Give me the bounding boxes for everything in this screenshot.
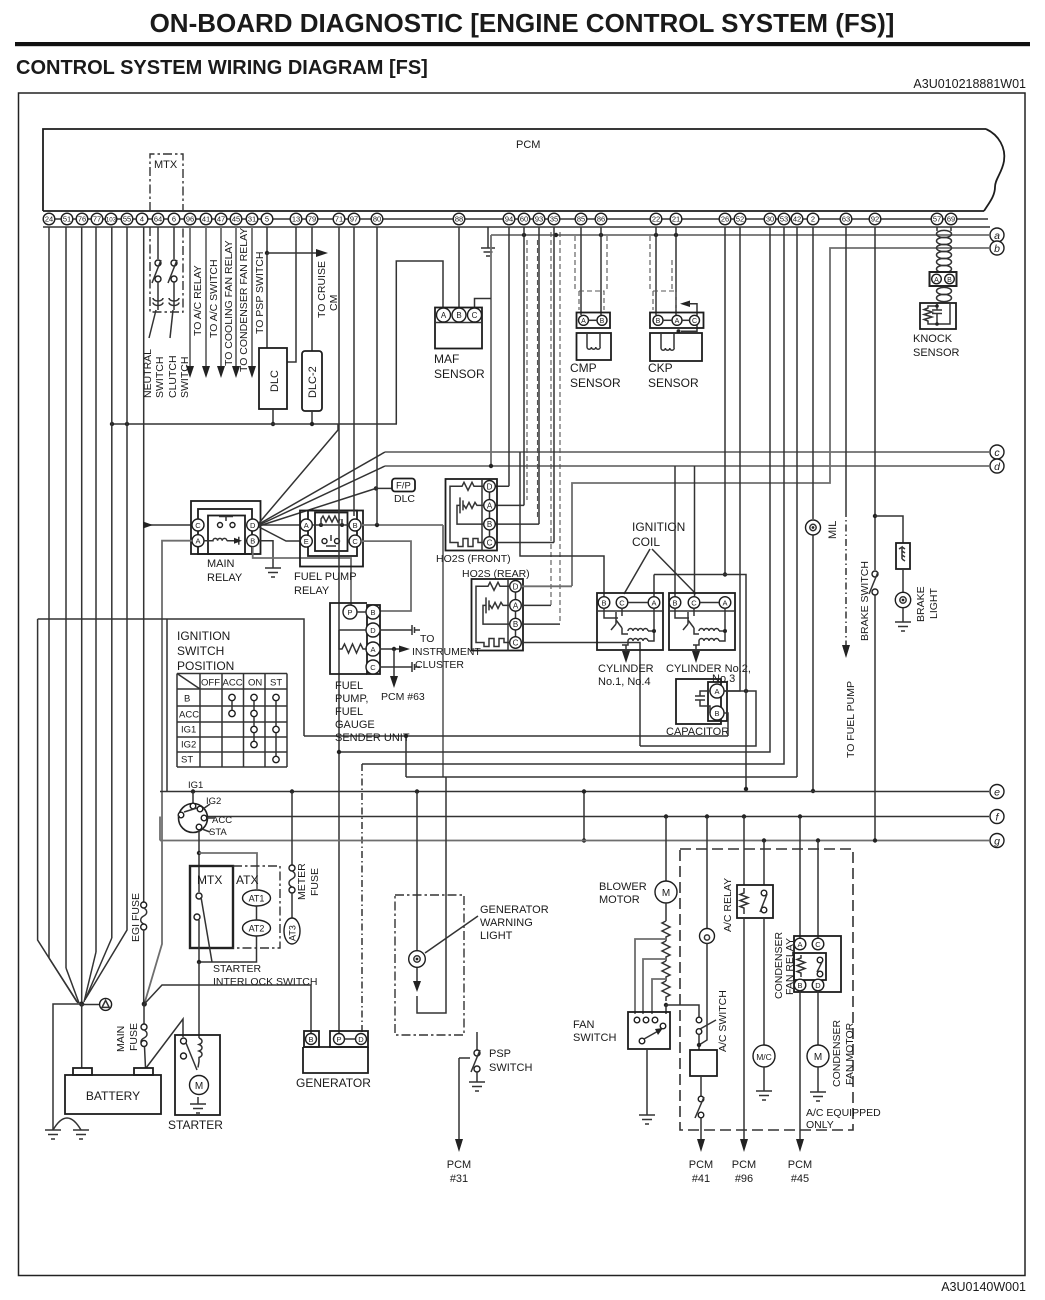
wire pin51 down [65, 227, 67, 968]
brake light lamp [895, 570, 940, 622]
wire to cooling fan relay [217, 227, 235, 378]
svg-text:ATX: ATX [236, 873, 258, 887]
title rule [15, 42, 1030, 46]
svg-text:C: C [513, 639, 519, 648]
wire B2 feed [674, 466, 676, 596]
fuel pump relay K2 [294, 511, 363, 598]
svg-text:WARNING: WARNING [480, 917, 533, 929]
svg-text:FAN MOTOR: FAN MOTOR [844, 1022, 856, 1085]
brake switch SW [859, 561, 878, 641]
CKP sensor [648, 313, 704, 391]
wire STA down to interlock [197, 830, 201, 892]
wire pin88 to MAF B [458, 227, 460, 308]
PSP switch SW [469, 1032, 532, 1091]
CMP sensor [570, 313, 621, 391]
D relay fan wire to bus c [259, 452, 385, 524]
svg-text:SWITCH: SWITCH [154, 357, 166, 398]
F/P DLC [392, 479, 415, 506]
svg-text:CLUTCH: CLUTCH [167, 355, 179, 398]
ignition switch position table [177, 674, 287, 768]
battery negative arc ground [53, 1118, 89, 1139]
svg-text:DLC: DLC [269, 370, 281, 392]
svg-text:D: D [513, 582, 519, 591]
inner loop to y777 [417, 777, 446, 1013]
svg-text:LIGHT: LIGHT [928, 587, 940, 619]
main relay ground [259, 541, 281, 577]
svg-text:TO PSP SWITCH: TO PSP SWITCH [254, 252, 266, 334]
coil feed bus y574 [654, 574, 725, 576]
wire g left end up [159, 817, 161, 841]
AT2 connector [197, 906, 271, 964]
svg-text:30: 30 [766, 215, 774, 224]
starter M [168, 1035, 223, 1132]
svg-text:MTX: MTX [197, 873, 222, 887]
svg-text:85: 85 [577, 215, 585, 224]
svg-text:A: A [487, 501, 493, 510]
A/C equipped dash box [680, 849, 853, 1130]
DLC [259, 348, 287, 409]
svg-text:#31: #31 [450, 1173, 468, 1185]
svg-text:RELAY: RELAY [207, 572, 243, 584]
svg-text:SENSOR: SENSOR [913, 347, 960, 359]
svg-text:#96: #96 [735, 1173, 753, 1185]
svg-text:B: B [600, 318, 605, 325]
PCM U1 box [43, 129, 1004, 211]
svg-text:ACC: ACC [179, 710, 199, 721]
svg-text:TO FUEL PUMP: TO FUEL PUMP [845, 681, 857, 758]
meter fuse F [289, 792, 321, 919]
svg-text:STARTER: STARTER [168, 1118, 223, 1132]
left fan converge to battery node [38, 424, 127, 1003]
wire battery feed to starter B [146, 1019, 183, 1068]
svg-text:No.1, No.4: No.1, No.4 [598, 676, 651, 688]
thermo switch circle [700, 817, 715, 944]
svg-text:SENSOR: SENSOR [648, 376, 699, 390]
blower resistor R [662, 903, 670, 1007]
wire pin26 down to coils [723, 227, 727, 577]
svg-text:A3U0140W001: A3U0140W001 [941, 1280, 1026, 1294]
svg-text:86: 86 [597, 215, 605, 224]
svg-text:AT1: AT1 [249, 894, 265, 904]
wire pin76 down [81, 227, 83, 1004]
HO2S front feeds [495, 227, 554, 543]
svg-text:B: B [487, 520, 492, 529]
svg-text:77: 77 [93, 215, 101, 224]
wire interlock to starter coil [198, 962, 200, 1038]
wire fuel A to instrument cluster [380, 646, 410, 653]
svg-text:COIL: COIL [632, 535, 660, 549]
svg-text:a: a [994, 230, 1000, 242]
svg-text:CONTROL SYSTEM WIRING DIAGRAM: CONTROL SYSTEM WIRING DIAGRAM [FS] [16, 57, 428, 79]
svg-text:55: 55 [123, 215, 131, 224]
HO2S (REAR) [462, 568, 530, 651]
wire pin22 to CKP B [655, 227, 657, 315]
svg-text:SENDER UNIT: SENDER UNIT [335, 732, 410, 744]
svg-text:FUEL: FUEL [335, 680, 363, 692]
DLC-2 [302, 351, 322, 411]
svg-text:LIGHT: LIGHT [480, 930, 513, 942]
AT3 connector [284, 918, 300, 944]
generator warning light dash box [395, 895, 464, 1035]
neutral switch [142, 227, 166, 398]
clutch switch [167, 227, 191, 398]
shield dashes CKP [650, 236, 672, 290]
svg-text:MAF: MAF [434, 352, 459, 366]
MIL lamp [806, 520, 840, 539]
svg-text:B: B [353, 521, 358, 530]
svg-text:M: M [662, 888, 670, 899]
D relay fan wire to y424 [259, 424, 338, 523]
svg-text:BRAKE SWITCH: BRAKE SWITCH [859, 561, 871, 641]
svg-text:M: M [195, 1081, 203, 1092]
battery node junction [79, 1001, 147, 1006]
arrow PCM 41 [689, 1139, 713, 1185]
svg-text:GENERATOR: GENERATOR [480, 904, 549, 916]
svg-text:SENSOR: SENSOR [434, 367, 485, 381]
wire to A/C relay [186, 227, 204, 378]
D relay wire to fuel pump relay A [259, 524, 300, 526]
svg-text:IG1: IG1 [188, 780, 203, 791]
brake light filament [896, 543, 910, 569]
svg-text:ON-BOARD DIAGNOSTIC [ENGINE CO: ON-BOARD DIAGNOSTIC [ENGINE CONTROL SYST… [150, 8, 895, 38]
bus line d [385, 464, 989, 468]
svg-text:EGI FUSE: EGI FUSE [130, 893, 142, 942]
svg-text:FUSE: FUSE [128, 1023, 140, 1051]
ground stub below PCM rail [481, 227, 495, 256]
HO2S (FRONT) [436, 479, 511, 565]
wire MIL down to e [811, 536, 815, 794]
wire ignition frame to right [304, 736, 728, 777]
svg-text:#41: #41 [692, 1173, 710, 1185]
battery BT1 [65, 1068, 161, 1114]
svg-text:42: 42 [793, 215, 801, 224]
svg-text:CMP: CMP [570, 361, 597, 375]
D relay fan wire to F/P DLC [259, 488, 376, 526]
svg-text:A: A [513, 601, 519, 610]
noise filter symbol [82, 998, 112, 1010]
svg-text:INSTRUMENT: INSTRUMENT [412, 646, 481, 658]
ignition coil label [624, 520, 696, 594]
svg-text:13: 13 [292, 215, 300, 224]
EGI fuse F [130, 893, 147, 1004]
svg-text:CKP: CKP [648, 361, 673, 375]
svg-text:53: 53 [780, 215, 788, 224]
connector mark upper [412, 625, 420, 635]
svg-text:2: 2 [811, 215, 815, 224]
wire pin92 down to brake switch [873, 227, 877, 570]
main fuse F [115, 1004, 147, 1068]
starter interlock switch SW [194, 893, 317, 988]
wire node to starter interlock feed [144, 985, 311, 1033]
svg-text:41: 41 [202, 215, 210, 224]
svg-text:A: A [797, 940, 802, 949]
wire pin2 down / MIL [812, 227, 814, 519]
svg-text:AT3: AT3 [288, 925, 298, 941]
svg-text:CLUSTER: CLUSTER [415, 659, 464, 671]
lower switch SW [695, 1096, 704, 1140]
svg-text:MTX: MTX [154, 159, 178, 171]
svg-text:#45: #45 [791, 1173, 809, 1185]
svg-text:97: 97 [350, 215, 358, 224]
svg-text:C: C [815, 940, 821, 949]
wire pin24 down [48, 227, 50, 958]
svg-text:C: C [691, 599, 697, 608]
wire pin103 down [111, 227, 113, 938]
thermo protector box [690, 1050, 717, 1096]
svg-text:35: 35 [550, 215, 558, 224]
svg-text:ST: ST [181, 755, 193, 766]
node a feeder [490, 235, 492, 466]
wire capacitor B down [724, 713, 728, 736]
svg-text:B: B [513, 620, 518, 629]
condenser fan relay K4 [773, 817, 841, 1000]
svg-text:60: 60 [520, 215, 528, 224]
A/C switch SW [696, 944, 729, 1053]
svg-text:KNOCK: KNOCK [913, 333, 953, 345]
svg-text:22: 22 [652, 215, 660, 224]
svg-text:P: P [347, 608, 352, 617]
wire A/C relay coil to PCM 96 [732, 918, 756, 1185]
svg-text:21: 21 [672, 215, 680, 224]
ATX dash box [233, 866, 280, 948]
main relay B wire to fuel pump P [253, 547, 351, 606]
svg-text:ONLY: ONLY [806, 1119, 834, 1131]
wire node left down [53, 1004, 82, 1130]
main relay feed arrow [143, 522, 192, 529]
ignition box frame [167, 619, 304, 792]
svg-text:RELAY: RELAY [294, 585, 330, 597]
svg-text:A: A [651, 599, 656, 608]
svg-text:FUSE: FUSE [309, 868, 321, 896]
node e bus [160, 789, 989, 793]
wire y619 left [38, 618, 167, 620]
bus line b [572, 248, 989, 586]
svg-text:103: 103 [106, 217, 117, 224]
wire y777 [406, 776, 797, 778]
wire pin13 to DLC [287, 227, 296, 362]
MTX box [190, 866, 233, 948]
wire e down to warning lamp [416, 792, 418, 951]
AT1 connector [243, 890, 271, 906]
blower motor M [599, 817, 677, 907]
PCM connector pins [43, 213, 957, 225]
svg-text:CYLINDER No.2,: CYLINDER No.2, [666, 663, 751, 675]
svg-text:C: C [370, 663, 376, 672]
knock sensor twisted pair lower [937, 287, 952, 301]
svg-text:24: 24 [45, 215, 53, 224]
arrow below lamp [413, 968, 421, 992]
svg-text:79: 79 [308, 215, 316, 224]
svg-text:A: A [304, 521, 309, 530]
wire rear C across [521, 643, 640, 747]
svg-text:FAN RELAY: FAN RELAY [784, 938, 796, 995]
svg-text:B: B [184, 694, 190, 705]
svg-text:POSITION: POSITION [177, 659, 234, 673]
wire to PSP switch [248, 227, 266, 378]
connector mark lower [412, 662, 420, 672]
svg-text:HO2S (FRONT): HO2S (FRONT) [436, 553, 511, 565]
wire B1 feed [520, 452, 604, 596]
ignition key switch [178, 792, 232, 839]
svg-text:DLC: DLC [394, 493, 415, 505]
wire fuel C to cluster connector [380, 666, 412, 668]
svg-text:MAIN: MAIN [207, 558, 235, 570]
svg-text:ST: ST [270, 678, 282, 689]
svg-text:A: A [934, 277, 939, 284]
svg-text:GENERATOR: GENERATOR [296, 1076, 371, 1090]
svg-text:A: A [370, 645, 375, 654]
svg-text:96: 96 [186, 215, 194, 224]
wire pin52 down to capacitor A [724, 227, 740, 691]
svg-text:TO CRUISE: TO CRUISE [316, 261, 328, 318]
svg-text:BATTERY: BATTERY [86, 1089, 140, 1103]
wire node to battery plus [81, 1004, 83, 1068]
svg-text:TO: TO [420, 633, 434, 645]
PCM lower rail [43, 226, 990, 228]
svg-text:P: P [336, 1035, 341, 1044]
coil feed down to e [725, 575, 748, 792]
wire pin79 to DLC-2 [311, 227, 313, 351]
svg-text:SWITCH: SWITCH [177, 644, 224, 658]
brake light ground [895, 608, 911, 631]
svg-text:A: A [581, 318, 586, 325]
svg-text:64: 64 [154, 215, 162, 224]
wire fuel D to cluster connector [380, 629, 412, 631]
node a [990, 228, 1004, 242]
fuel pump sender unit [330, 603, 410, 744]
node b [990, 241, 1004, 255]
generator warning light L [409, 904, 549, 967]
svg-text:PSP: PSP [489, 1048, 511, 1060]
svg-text:CONDENSER: CONDENSER [831, 1019, 843, 1087]
svg-text:B: B [797, 981, 802, 990]
wire DLC to bus [272, 409, 274, 424]
svg-text:TO A/C SWITCH: TO A/C SWITCH [208, 259, 220, 338]
PCM pin numbers [43, 213, 55, 225]
MAF sensor [434, 308, 485, 382]
svg-text:B: B [308, 1035, 313, 1044]
main relay A wire to left rail [144, 541, 192, 1004]
svg-text:63: 63 [842, 215, 850, 224]
generator G [296, 1031, 371, 1090]
PCM pin row line [43, 218, 988, 220]
svg-text:E: E [304, 537, 309, 546]
svg-text:C: C [352, 537, 358, 546]
svg-text:ACC: ACC [212, 815, 232, 826]
svg-text:71: 71 [335, 215, 343, 224]
svg-text:C: C [472, 311, 478, 320]
svg-text:D: D [358, 1035, 364, 1044]
svg-text:C: C [619, 599, 625, 608]
svg-text:B: B [601, 599, 606, 608]
wire pin63 to fuel pump arrow [842, 227, 857, 758]
fan switch SW [573, 1012, 670, 1049]
wire to condenser fan relay [232, 227, 250, 378]
wire CKP shield hook [677, 301, 698, 334]
svg-text:IG1: IG1 [181, 725, 196, 736]
staircase wire y746 [640, 691, 756, 746]
bus line a [491, 233, 989, 237]
MTX dash-dot box (top) [150, 154, 183, 312]
svg-text:TO CONDENSER FAN RELAY: TO CONDENSER FAN RELAY [238, 228, 250, 372]
svg-text:SWITCH: SWITCH [573, 1032, 616, 1044]
svg-text:F/P: F/P [396, 481, 411, 492]
wire e to g link [583, 792, 585, 841]
wire A1 up [653, 575, 655, 597]
wire condenser relay B to PCM 45 [788, 991, 812, 1185]
wire to brake light [875, 516, 903, 543]
svg-text:80: 80 [373, 215, 381, 224]
svg-text:FUEL: FUEL [335, 706, 363, 718]
svg-text:B: B [456, 311, 461, 320]
svg-text:47: 47 [217, 215, 225, 224]
svg-text:FUEL PUMP: FUEL PUMP [294, 571, 357, 583]
wire DLC-2 to bus [311, 411, 313, 424]
svg-text:69: 69 [947, 215, 955, 224]
svg-text:C: C [487, 539, 493, 548]
svg-text:PCM #63: PCM #63 [381, 691, 425, 703]
svg-text:A: A [195, 537, 200, 546]
svg-text:SENSOR: SENSOR [570, 376, 621, 390]
svg-text:e: e [994, 787, 1000, 799]
svg-text:A: A [441, 311, 447, 320]
svg-text:A: A [675, 318, 680, 325]
svg-text:METER: METER [296, 863, 308, 900]
svg-text:OFF: OFF [201, 678, 220, 689]
svg-text:AT2: AT2 [249, 924, 265, 934]
condenser fan motor M [807, 991, 856, 1101]
ignition coil T1 (cylinder 1,4) [597, 593, 663, 688]
svg-text:B: B [656, 318, 661, 325]
ignition switch position title [177, 629, 234, 673]
shield dashed pair [551, 232, 560, 624]
wire brake switch down to g [874, 595, 876, 840]
svg-text:B: B [947, 277, 952, 284]
svg-text:A/C SWITCH: A/C SWITCH [717, 990, 729, 1052]
D relay fan wire to bus d [259, 466, 385, 525]
node d [990, 459, 1004, 473]
svg-text:TO COOLING FAN RELAY: TO COOLING FAN RELAY [223, 240, 235, 366]
wire pin85 to CMP A [580, 227, 582, 315]
svg-text:D: D [487, 482, 493, 491]
svg-text:DLC-2: DLC-2 [307, 366, 319, 398]
svg-text:MAIN: MAIN [115, 1026, 127, 1052]
wire PSP to PCM 31 [447, 1058, 471, 1185]
F/P DLC tap on pin80 wire [374, 486, 378, 490]
svg-text:52: 52 [736, 215, 744, 224]
svg-text:B: B [250, 537, 255, 546]
node c [990, 445, 1004, 459]
svg-text:c: c [994, 447, 1000, 459]
svg-text:D: D [815, 981, 821, 990]
svg-text:MOTOR: MOTOR [599, 894, 640, 906]
svg-text:CYLINDER: CYLINDER [598, 663, 654, 675]
node f bus [180, 814, 989, 818]
wire pin97 down [353, 227, 355, 516]
svg-text:PCM: PCM [788, 1159, 812, 1171]
svg-text:PCM: PCM [732, 1159, 756, 1171]
wire to ATX [199, 853, 257, 889]
magnetic clutch M/C [753, 918, 775, 1100]
wire key to f bus [178, 816, 180, 818]
capacitor C1 box [666, 679, 729, 738]
svg-text:ACC: ACC [223, 678, 243, 689]
svg-text:51: 51 [63, 215, 71, 224]
wire rear D to bus b [521, 585, 572, 587]
svg-text:M/C: M/C [756, 1052, 772, 1062]
svg-text:g: g [994, 836, 1000, 848]
svg-text:IG2: IG2 [181, 740, 196, 751]
